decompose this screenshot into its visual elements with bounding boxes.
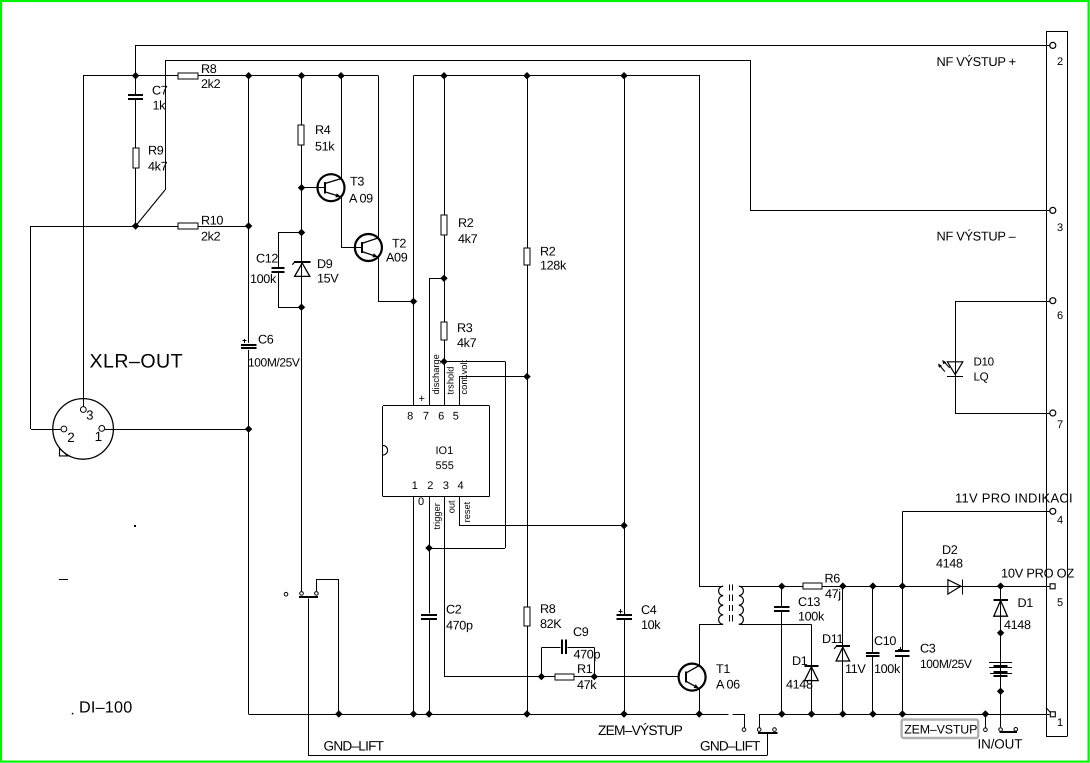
svg-text:R8: R8 [540,602,556,616]
svg-text:4: 4 [1057,515,1063,527]
svg-text:D10: D10 [974,356,994,369]
svg-text:8: 8 [407,411,413,423]
svg-text:1: 1 [95,429,103,444]
svg-text:4k7: 4k7 [148,160,168,174]
svg-text:1: 1 [412,480,418,492]
svg-text:IO1: IO1 [436,445,454,457]
svg-text:4148: 4148 [786,678,813,692]
svg-text:1: 1 [1057,717,1063,729]
svg-text:A 09: A 09 [349,192,373,206]
svg-text:1k: 1k [153,99,167,113]
svg-text:15V: 15V [317,272,339,286]
svg-text:0: 0 [418,496,424,508]
svg-text:3: 3 [443,480,449,492]
svg-text:555: 555 [436,460,454,472]
svg-text:D11: D11 [822,632,843,646]
svg-text:C13: C13 [798,595,820,609]
svg-text:7: 7 [423,411,429,423]
svg-text:R4: R4 [315,123,331,137]
svg-text:6: 6 [1057,310,1063,322]
svg-text:GND–LIFT: GND–LIFT [324,739,384,754]
svg-text:2k2: 2k2 [201,77,221,91]
svg-text:A09: A09 [386,251,408,265]
svg-text:10V PRO OZ: 10V PRO OZ [1001,566,1074,581]
svg-text:cont.volt: cont.volt [459,359,469,394]
svg-text:C2: C2 [446,603,462,617]
svg-text:100k: 100k [798,609,825,623]
svg-text:+: + [419,393,425,405]
svg-text:47j: 47j [825,587,841,601]
svg-text:NF VÝSTUP –: NF VÝSTUP – [937,229,1017,244]
svg-text:470p: 470p [446,618,473,632]
svg-text:3: 3 [86,408,93,423]
svg-text:2: 2 [67,430,75,445]
svg-text:D1: D1 [1018,596,1034,610]
svg-text:R2: R2 [540,245,556,259]
svg-text:5: 5 [1057,597,1063,609]
svg-text:C12: C12 [256,252,278,266]
svg-text:trigger: trigger [432,503,442,529]
svg-text:5: 5 [453,411,459,423]
svg-text:100k: 100k [250,272,277,286]
svg-text:discharge: discharge [431,354,441,394]
svg-text:4148: 4148 [936,557,963,571]
svg-text:T2: T2 [392,237,406,251]
svg-text:11V PRO INDIKACI: 11V PRO INDIKACI [955,490,1073,505]
svg-text:C10: C10 [874,634,896,648]
svg-text:4: 4 [458,480,464,492]
svg-text:82K: 82K [540,617,562,631]
svg-text:7: 7 [1057,419,1063,431]
svg-text:100k: 100k [874,662,901,676]
svg-text:NF VÝSTUP +: NF VÝSTUP + [937,54,1016,69]
svg-text:10k: 10k [641,618,661,632]
svg-text:R6: R6 [825,572,841,586]
svg-text:C9: C9 [573,625,589,639]
svg-text:C3: C3 [920,642,936,656]
svg-text:2: 2 [1057,56,1063,68]
svg-text:GND–LIFT: GND–LIFT [700,739,760,754]
svg-text:2: 2 [427,480,433,492]
svg-text:R9: R9 [148,144,164,158]
svg-text:trshold: trshold [445,367,455,395]
svg-text:R2: R2 [458,216,474,230]
svg-text:6: 6 [438,411,444,423]
svg-text:4k7: 4k7 [458,232,478,246]
svg-text:ZEM–VÝSTUP: ZEM–VÝSTUP [598,723,683,738]
svg-text:100M/25V: 100M/25V [920,657,972,671]
svg-text:R8: R8 [201,62,217,76]
svg-text:100M/25V: 100M/25V [248,356,300,370]
svg-text:128k: 128k [540,259,567,273]
svg-text:R3: R3 [457,321,473,335]
svg-text:470p: 470p [574,648,601,662]
svg-text:A 06: A 06 [716,678,740,692]
svg-text:IN/OUT: IN/OUT [978,737,1023,752]
svg-text:4k7: 4k7 [457,336,477,350]
svg-text:11V: 11V [845,662,866,676]
svg-text:R10: R10 [201,214,223,228]
svg-text:DI–100: DI–100 [79,699,132,717]
svg-text:D9: D9 [317,257,333,271]
svg-text:C4: C4 [641,603,657,617]
svg-text:51k: 51k [315,140,335,154]
svg-text:3: 3 [1057,222,1063,234]
svg-text:C6: C6 [258,333,274,347]
svg-text:LQ: LQ [974,371,989,384]
svg-text:out: out [446,500,456,513]
svg-text:R1: R1 [577,662,593,676]
svg-text:4148: 4148 [1004,618,1031,632]
svg-text:reset: reset [462,501,472,522]
svg-text:ZEM–VSTUP: ZEM–VSTUP [904,722,977,736]
svg-text:XLR–OUT: XLR–OUT [90,351,184,373]
svg-text:T1: T1 [716,662,730,676]
svg-text:T3: T3 [350,175,364,189]
svg-text:2k2: 2k2 [201,230,221,244]
svg-text:D2: D2 [942,543,958,557]
svg-text:D1: D1 [792,654,808,668]
